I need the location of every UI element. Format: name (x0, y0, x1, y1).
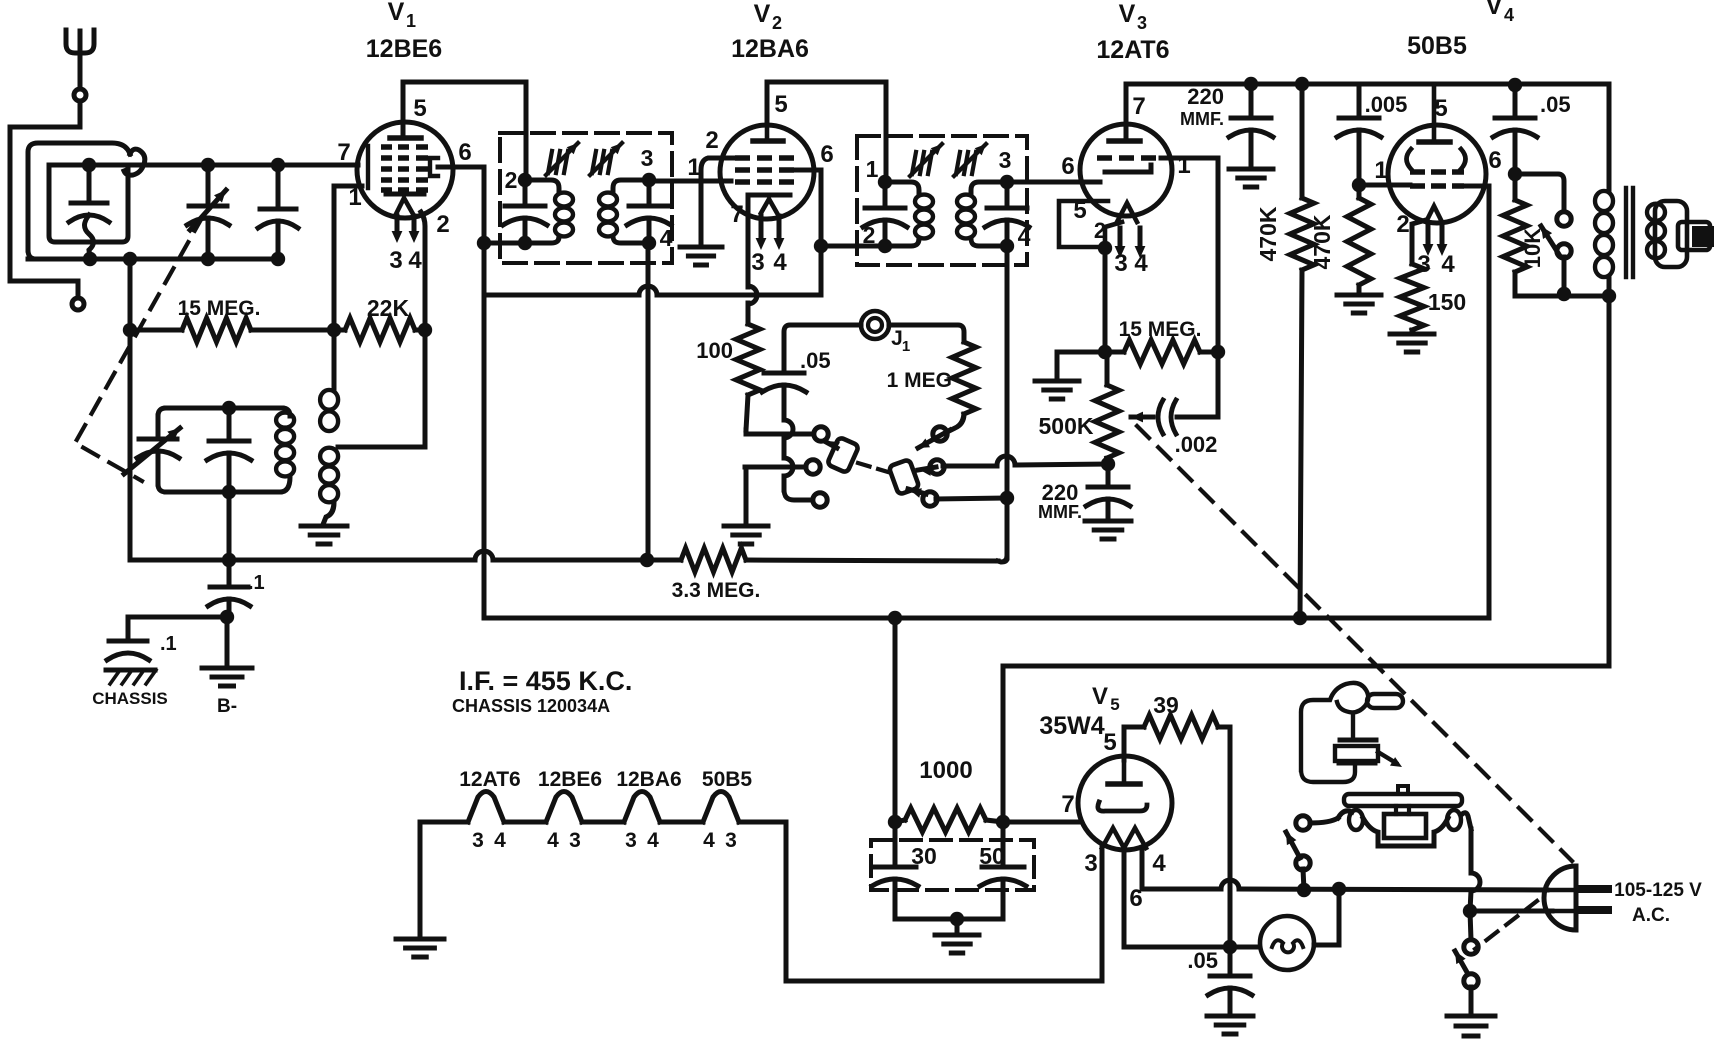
ground osc coil (301, 524, 347, 529)
wire V3 cathode down (1103, 248, 1108, 352)
ground 220MMF avc (1085, 519, 1131, 524)
node B+ 470K (1293, 611, 1307, 625)
antenna link terminal (72, 298, 84, 310)
ground heater chain (396, 937, 444, 942)
capacitor 50 (1001, 822, 1006, 865)
svg-text:MMF.: MMF. (1038, 502, 1082, 522)
svg-text:2: 2 (1396, 211, 1409, 238)
svg-text:4: 4 (1018, 223, 1031, 249)
inductor T2 secondary (971, 182, 1007, 194)
wire 100ohm to contact (744, 430, 749, 434)
resistor 15MEG (130, 328, 182, 333)
ground V2 pin2 (680, 245, 722, 250)
wire ac switch gnd (1469, 987, 1474, 1014)
ground .05 line (1207, 1014, 1253, 1019)
node T2 pin1 (878, 175, 892, 189)
ground filter (955, 919, 960, 933)
node T1 pin4 (642, 236, 656, 250)
node T1 pin2 (518, 173, 532, 187)
ground ac switch (1447, 1014, 1495, 1019)
svg-text:35W4: 35W4 (1039, 712, 1104, 740)
wire 1000 right up (1001, 666, 1006, 822)
svg-text:7: 7 (1132, 93, 1145, 120)
capacitor .005 (1357, 85, 1362, 116)
transformer T2 shield box (857, 136, 1027, 265)
inductor T2 primary (885, 182, 919, 194)
svg-text:4: 4 (1152, 850, 1166, 877)
node B+ filter (888, 611, 902, 625)
capacitor antenna trimmer (276, 165, 281, 206)
speaker frame (1655, 201, 1687, 267)
svg-text:4: 4 (647, 829, 659, 852)
tube V5 35W4 envelope (1078, 756, 1172, 850)
node V3 cathode (1098, 241, 1112, 255)
wire pilot to line (1314, 889, 1339, 945)
svg-text:1: 1 (687, 154, 700, 181)
V1 heater pins 3 4 (395, 216, 400, 235)
V1 grids (381, 144, 392, 150)
wire V1 pin1 (334, 186, 362, 330)
svg-text:12BA6: 12BA6 (616, 768, 681, 791)
switch gang dashes A (858, 463, 888, 472)
V2 grids (735, 155, 750, 161)
wire coil to ac line (1469, 829, 1474, 873)
wire tone switch down (1562, 257, 1567, 294)
svg-text:5: 5 (1434, 95, 1447, 122)
speaker voice coil (1678, 222, 1710, 250)
svg-text:3: 3 (1114, 250, 1127, 277)
switch phono contact A1 (814, 427, 828, 441)
svg-text:12BA6: 12BA6 (731, 35, 809, 63)
resistor 1MEG (952, 342, 976, 414)
svg-text:105-125 V: 105-125 V (1614, 880, 1702, 901)
wire T1 sec to V2 grid (649, 179, 731, 184)
svg-text:5: 5 (413, 95, 426, 122)
wire antenna lead-in (10, 101, 80, 298)
V3 cathode (1117, 203, 1137, 222)
V3 plate (1109, 138, 1140, 144)
svg-text:3: 3 (625, 829, 637, 852)
svg-text:39: 39 (1153, 692, 1179, 718)
V3 diode plate (1105, 165, 1151, 172)
svg-text:6: 6 (1488, 147, 1501, 174)
switch radio contact B2 (930, 460, 944, 474)
svg-text:5: 5 (774, 91, 787, 118)
svg-text:3: 3 (725, 829, 737, 852)
wire screen bus y295 (484, 293, 639, 298)
wire to tone switch (1515, 174, 1564, 212)
capacitor T1 primary (523, 180, 528, 204)
speaker magnet (1692, 226, 1714, 247)
node trimmer bottom (271, 252, 285, 266)
V2 heater pins 3 4 (759, 216, 764, 242)
wire osc tank top (166, 406, 282, 411)
node filter gnd (950, 912, 964, 926)
wire xfmr B+ down (1607, 296, 1612, 666)
resistor 100 (736, 324, 760, 395)
wire V3 pin5 bracket (1059, 201, 1108, 247)
node rail 220mmf (1244, 77, 1258, 91)
node trimmer top (271, 158, 285, 172)
svg-text:470K: 470K (1255, 206, 1281, 261)
wire T2 pin4 avc (1005, 246, 1010, 558)
tube V2 12BA6 envelope (720, 125, 814, 219)
switch arrow B3 (908, 489, 926, 494)
node osc grid junction (327, 323, 341, 337)
svg-text:12BE6: 12BE6 (366, 35, 442, 63)
svg-text:7: 7 (1061, 791, 1074, 818)
T2 slug arrows (912, 152, 916, 174)
svg-text:.1: .1 (160, 633, 177, 655)
wire V5 pin4 (1142, 848, 1221, 889)
wire screen to T1 bottom (484, 241, 525, 246)
svg-text:3: 3 (641, 145, 654, 171)
svg-text:7: 7 (337, 139, 350, 166)
wire B+ line (484, 616, 1489, 621)
node T2 pin4 (1000, 239, 1014, 253)
svg-text:3: 3 (751, 249, 764, 276)
svg-text:150: 150 (1428, 289, 1466, 315)
V3 grid (1097, 155, 1112, 161)
V4 cathode (1426, 206, 1442, 222)
resistor 3.3MEG (681, 548, 746, 572)
V5 filament (1102, 828, 1146, 848)
V1 pin6 bracket (430, 158, 438, 176)
svg-text:4: 4 (494, 829, 506, 852)
transformer T1 shield box (500, 133, 672, 263)
wire contact B3 to avc (936, 498, 1004, 499)
capacitor loop trimmer (87, 165, 92, 202)
svg-text:2: 2 (772, 13, 782, 33)
ground V3 cathode (1035, 379, 1079, 384)
pilot lamp (1260, 916, 1314, 970)
V4 grids (1410, 169, 1425, 175)
wire interlock to line (1303, 869, 1304, 890)
node T1 pri bottom link (477, 236, 491, 250)
node avc switch branch (1000, 491, 1014, 505)
svg-text:6: 6 (820, 141, 833, 168)
gang link volume (1137, 426, 1572, 861)
svg-text:4: 4 (408, 247, 422, 274)
inductor osc feedback coil (332, 330, 337, 389)
svg-text:30: 30 (911, 843, 937, 869)
antenna (66, 30, 94, 53)
V1 plate (390, 135, 421, 141)
capacitor C1A tuning (206, 165, 211, 203)
dial lamp assembly (1338, 811, 1352, 818)
svg-text:4: 4 (660, 225, 673, 251)
node avc bus osc (222, 553, 236, 567)
node grid-loop junction (82, 158, 96, 172)
V4 heater pins 3 4 (1426, 226, 1431, 248)
V1 cathode (386, 192, 424, 197)
node rail 470K1 (1295, 77, 1309, 91)
svg-text:.1: .1 (248, 572, 265, 594)
switch radio contact B3 (923, 492, 937, 506)
svg-text:V: V (1119, 0, 1136, 28)
V5 cathode (1098, 802, 1147, 811)
wire filter bottom (895, 917, 1003, 922)
transformer output secondary (1647, 204, 1665, 221)
node 15meg right (1211, 345, 1225, 359)
wire heater chain (420, 820, 468, 825)
svg-text:CHASSIS: CHASSIS (92, 689, 168, 708)
node ac line lamp (1332, 882, 1346, 896)
wire V3 cath gnd (1057, 352, 1105, 379)
svg-text:1: 1 (866, 156, 879, 182)
wire V2 cathode lead (746, 195, 751, 287)
svg-text:I.F. = 455 K.C.: I.F. = 455 K.C. (459, 666, 632, 696)
node ac line sw (1297, 883, 1311, 897)
capacitor osc padder (227, 408, 232, 439)
svg-text:3: 3 (472, 829, 484, 852)
transformer core (1624, 188, 1628, 277)
wire interlock to coil (1310, 818, 1338, 823)
ground B- (225, 617, 230, 666)
svg-text:2: 2 (505, 167, 518, 193)
node b-minus junction (220, 610, 234, 624)
node 1000 left (888, 815, 902, 829)
switch radio contact B1 (933, 427, 947, 441)
capacitor 220MMF plate (1249, 84, 1254, 116)
wire b-minus (128, 615, 227, 620)
interlock contact bottom (1296, 856, 1310, 870)
svg-text:6: 6 (458, 139, 471, 166)
node xfmr bottom (1602, 289, 1616, 303)
svg-text:7: 7 (730, 201, 743, 228)
svg-text:MMF.: MMF. (1180, 109, 1224, 129)
wire J1 left (784, 325, 861, 371)
V1 pin7 internal (366, 146, 370, 188)
svg-text:1: 1 (902, 338, 910, 355)
svg-text:15 MEG.: 15 MEG. (178, 297, 261, 320)
svg-text:4: 4 (703, 829, 715, 852)
svg-text:V: V (754, 0, 771, 28)
node V2 screen junction (814, 239, 828, 253)
capacitor T1 secondary (647, 180, 652, 204)
svg-text:1: 1 (406, 11, 416, 31)
node padder bottom (222, 485, 236, 499)
node 10K top (1508, 167, 1522, 181)
jack J1 (861, 311, 889, 339)
wire .05 to contact A3 (784, 420, 793, 438)
gang link tuning (75, 216, 203, 481)
svg-text:.05: .05 (800, 348, 831, 373)
wire V2 pin2 (701, 158, 735, 244)
filter cap box (871, 840, 1034, 890)
resistor 470K first (1300, 84, 1305, 198)
node padder top (222, 401, 236, 415)
node T1 pri bottom (518, 236, 532, 250)
wire heater chain return (786, 822, 1102, 981)
ground switch (724, 524, 768, 529)
svg-text:50: 50 (979, 843, 1005, 869)
capacitor .002 (1177, 415, 1218, 420)
node T2 pin3 (1000, 175, 1014, 189)
inductor T1 primary (525, 180, 559, 192)
node loop bottom (83, 252, 97, 266)
wire ac lower to plug (1470, 909, 1552, 914)
node tone switch bottom (1557, 287, 1571, 301)
svg-text:3: 3 (569, 829, 581, 852)
svg-text:1000: 1000 (919, 757, 972, 784)
svg-text:2: 2 (705, 127, 718, 154)
svg-text:V: V (1486, 0, 1503, 20)
capacitor .05 line (1228, 947, 1233, 974)
ground 470K second (1337, 293, 1381, 298)
svg-text:1 MEG: 1 MEG (887, 369, 952, 392)
node ac lower (1463, 904, 1477, 918)
tube V1 12BE6 envelope (357, 122, 453, 218)
wire V5 pin6 (1124, 848, 1259, 947)
ac plug prongs (1578, 885, 1608, 893)
svg-text:.05: .05 (1540, 92, 1571, 117)
resistor 15MEG V3 (1105, 350, 1124, 355)
svg-text:5: 5 (1103, 729, 1116, 756)
svg-text:A.C.: A.C. (1632, 905, 1670, 926)
V5 plate (1108, 781, 1140, 787)
loop antenna L1 inner (49, 165, 128, 242)
capacitor .05 phono (764, 371, 804, 376)
chassis ground (106, 668, 155, 673)
resistor 150 (1400, 264, 1424, 330)
capacitor .1 chassis (126, 617, 131, 639)
wire B+ unfiltered (1003, 664, 1609, 669)
node V3 cath 15meg (1098, 345, 1112, 359)
resistor 22K (334, 328, 345, 333)
svg-text:220: 220 (1187, 84, 1224, 109)
node pilot junction (1223, 940, 1237, 954)
transformer output primary (1595, 191, 1613, 211)
resistor 39 (1144, 715, 1218, 739)
tone switch contact top (1557, 212, 1571, 226)
wire T2 sec to V3 grid (1007, 180, 1100, 185)
node 1000 right (996, 815, 1010, 829)
interlock blade (1286, 832, 1300, 858)
wire 39 to pilot (1228, 880, 1233, 947)
resistor 10K (1503, 200, 1527, 272)
capacitor 220MMF avc (1106, 464, 1111, 485)
wire ac switch (1470, 911, 1471, 940)
svg-text:3: 3 (1084, 850, 1097, 877)
svg-text:V: V (388, 0, 405, 26)
svg-text:2: 2 (1094, 218, 1106, 243)
capacitor 30 (893, 822, 898, 865)
wire padder to avc bus (227, 492, 232, 560)
switch phono contact A3 (813, 493, 827, 507)
ac switch contact top (1464, 940, 1478, 954)
svg-text:V: V (1092, 683, 1108, 710)
ground 150 (1390, 332, 1434, 337)
svg-text:2: 2 (436, 211, 449, 238)
node volume top (1101, 457, 1115, 471)
wire V4 pin6 (1464, 184, 1489, 189)
thermistor assembly (1301, 683, 1368, 782)
capacitor .1 osc (227, 560, 232, 586)
loop antenna L1 outer (28, 143, 130, 250)
tube V3 12AT6 envelope (1080, 124, 1172, 216)
node rail .05 (1508, 78, 1522, 92)
svg-text:1: 1 (348, 184, 361, 211)
wire V1 plate to T1 (403, 82, 526, 177)
svg-text:CHASSIS 120034A: CHASSIS 120034A (452, 696, 610, 716)
svg-text:6: 6 (1061, 153, 1074, 180)
wire filter left vert (893, 618, 898, 822)
ac switch blade (1455, 951, 1468, 974)
svg-text:4: 4 (1441, 251, 1455, 278)
svg-text:500K: 500K (1039, 413, 1094, 439)
wire V3 plate rail (1126, 84, 1609, 141)
svg-text:100: 100 (696, 338, 733, 363)
inductor osc tank coil (282, 408, 290, 416)
svg-text:12AT6: 12AT6 (1096, 36, 1169, 64)
resistor 470K second (1357, 185, 1362, 198)
node T2 pin2 (878, 239, 892, 253)
ac plug body (1544, 866, 1576, 930)
switch phono contact A2 (806, 460, 820, 474)
node .005 bottom (1352, 178, 1366, 192)
node avc t1 return (640, 553, 654, 567)
wire V1 pin2 (421, 212, 425, 330)
svg-text:3: 3 (1137, 13, 1147, 33)
svg-text:50B5: 50B5 (702, 768, 753, 791)
capacitor C1B osc tuning (158, 408, 166, 416)
node 22k right (418, 323, 432, 337)
potentiometer 500K (1105, 352, 1110, 385)
wire V4 pin2 (1412, 220, 1426, 264)
svg-text:5: 5 (1110, 695, 1119, 714)
node C1A top (201, 158, 215, 172)
tone switch blade (1541, 226, 1560, 256)
capacitor .05 V4 (1513, 85, 1518, 116)
interlock contact top (1296, 816, 1310, 830)
wire avc left vertical (128, 259, 133, 560)
wire ground to contact A2 (745, 465, 806, 470)
svg-text:470K: 470K (1309, 214, 1335, 269)
wire V5 plate 39 (1124, 727, 1144, 760)
T1 slug arrows (548, 151, 552, 173)
switch wiper 1MEG arrow (918, 430, 950, 448)
svg-text:3: 3 (999, 147, 1012, 173)
V2 plate (753, 138, 783, 144)
tone switch contact bottom (1557, 244, 1571, 258)
wire V2 plate to T2 (767, 82, 886, 178)
gang link switch (1475, 901, 1537, 949)
svg-text:.005: .005 (1365, 92, 1408, 117)
wire 15meg to .002 (1216, 352, 1221, 417)
wire rail to xfmr (1607, 84, 1612, 190)
wire T1 pin4 avc (646, 243, 651, 560)
wire V3 grid right (1161, 158, 1218, 352)
svg-text:22K: 22K (367, 295, 410, 321)
svg-text:B-: B- (217, 696, 237, 717)
V3 heater pins 3 4 (1118, 228, 1123, 250)
node 15meg left (123, 323, 137, 337)
wire osc tank bottom (166, 490, 280, 495)
wire V1 pin6 screen (438, 165, 484, 170)
wire V2 pin6 (795, 170, 821, 246)
wire avc bus (130, 558, 475, 563)
switch blade A (827, 437, 859, 473)
capacitor T2 primary (883, 182, 888, 206)
wire loop bottom bus y259 (28, 257, 278, 262)
node loop-avc junction (123, 252, 137, 266)
wire heater chain left gnd (418, 822, 423, 937)
tube V4 50B5 envelope (1388, 125, 1486, 223)
svg-text:3.3 MEG.: 3.3 MEG. (672, 579, 761, 602)
resistor 1000 (905, 808, 986, 832)
wire 10K bottom (1515, 294, 1609, 299)
